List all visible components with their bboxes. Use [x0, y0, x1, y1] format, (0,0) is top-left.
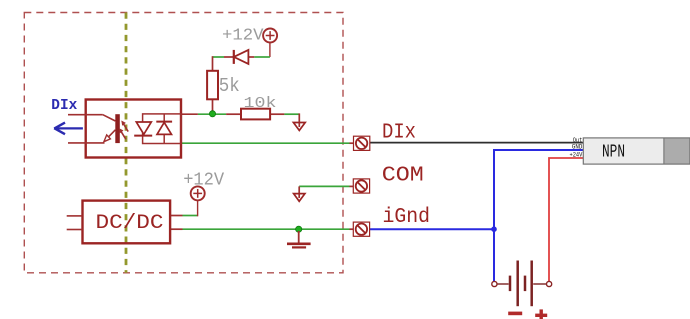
svg-text:GND: GND: [572, 144, 582, 152]
svg-text:DC/DC: DC/DC: [96, 212, 164, 235]
svg-text:COM: COM: [382, 163, 424, 187]
svg-text:10k: 10k: [244, 95, 277, 112]
svg-text:DIx: DIx: [51, 98, 77, 114]
svg-text:+12V: +12V: [183, 170, 224, 190]
svg-text:NPN: NPN: [602, 143, 625, 163]
svg-text:5k: 5k: [219, 75, 240, 97]
svg-text:+12V: +12V: [222, 26, 264, 45]
svg-text:+24V: +24V: [570, 152, 584, 160]
svg-text:iGnd: iGnd: [383, 205, 431, 229]
svg-text:DIx: DIx: [382, 121, 416, 145]
